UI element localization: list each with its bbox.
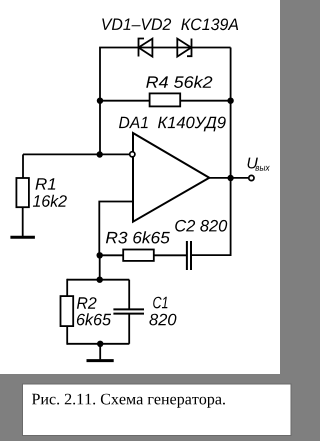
output terminal [249,175,254,180]
wire op-amp output [209,177,248,179]
wire to lower junction [99,255,101,279]
label R1 [36,178,56,189]
capacitor C2 plates [187,241,191,270]
wire ground stem bottom [99,344,101,360]
node: R2C1 bottom junction [97,341,103,347]
white schematic panel [0,0,280,374]
label U subscript [255,166,269,171]
wire R2C1 loop bottom [67,343,129,345]
label U out [248,158,258,169]
resistor R2 [61,296,74,326]
resistor R3 [123,250,154,261]
wire R2C1 loop top [67,279,129,281]
resistor R1 [16,178,29,207]
node: R4 left junction [97,98,103,104]
label 6k65 R2 [77,313,111,325]
op-amp inverting bubble [130,152,135,157]
wire R1 top [22,154,24,178]
wire R4 branch [100,100,231,102]
wire C1 branch top [128,280,130,310]
wire inverting input [23,153,129,155]
diode VD2 zener [177,39,191,57]
wire right rail [191,48,231,256]
wire R3 left [100,254,124,256]
node: R3 junction [97,252,103,258]
wire non-inverting input [99,202,133,257]
label 16k2 [33,195,67,207]
node: R2C1 top junction [97,277,103,283]
label C1 [153,297,167,309]
label VD1-VD2 [102,18,171,30]
wire R2 branch left [66,279,68,297]
caption text [32,394,225,408]
label 820 C1 [149,314,176,326]
label C2 820 [175,220,227,232]
label KC139A [181,19,238,31]
ground (R1) [10,236,35,239]
wire top zener branch [100,48,231,155]
diode VD1 zener [139,39,153,57]
resistor R4 [150,93,181,106]
wire C1 branch bottom [128,314,130,344]
label R4 56k2 [146,76,212,88]
label R3 6k65 [106,231,170,243]
label K140UD9 [158,117,226,132]
node: R4 right junction [227,98,233,104]
wire R2 branch bottom [66,326,68,345]
caption box [23,384,292,436]
wire R1 bottom [22,207,24,237]
op-amp DA1 triangle [133,133,209,222]
capacitor C1 plates [113,309,144,313]
ground (bottom) [87,359,114,362]
node: output junction [227,175,233,181]
label R2 [77,297,97,309]
wire R3 to C2 [154,254,187,256]
node: inverting input junction [97,151,103,157]
label DA1 [119,117,148,128]
